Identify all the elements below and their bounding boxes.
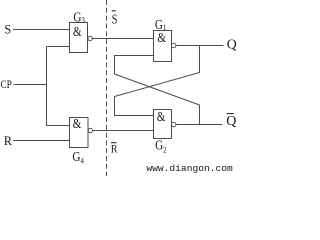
- svg-text:R: R: [111, 143, 118, 156]
- svg-text:&: &: [73, 116, 82, 131]
- wire Q-bar output from G2 bubble: [176, 124, 223, 126]
- wire CP input to trunk: [14, 84, 47, 86]
- wire S-bar from G3 to G1 pin 1: [92, 38, 153, 40]
- G2 output bubble: [172, 122, 176, 126]
- svg-text:www.diangon.com: www.diangon.com: [146, 163, 233, 174]
- svg-text:S: S: [112, 11, 118, 27]
- svg-text:Q: Q: [226, 114, 236, 129]
- NAND gate G2 body: [154, 109, 172, 139]
- NAND gate G1 body: [154, 30, 172, 62]
- svg-text:&: &: [73, 24, 82, 39]
- wire feedback Q-bar to G1 pin 2: [115, 56, 200, 125]
- wire feedback Q to G2 pin 1: [115, 46, 200, 116]
- G4 output bubble: [88, 128, 92, 132]
- G3 output bubble: [88, 36, 92, 40]
- svg-text:&: &: [157, 109, 166, 124]
- wire CP trunk vertical: [46, 47, 48, 126]
- output label Q-bar: [226, 114, 236, 129]
- dashed separator line: [106, 0, 108, 176]
- wire CP branch to G3 pin 2: [47, 46, 70, 48]
- wire CP branch to G4 pin 1: [47, 125, 70, 127]
- NAND gate G4 body: [70, 116, 89, 148]
- svg-text:R: R: [4, 134, 13, 148]
- svg-text:CP: CP: [1, 79, 12, 91]
- svg-text:S: S: [4, 23, 11, 37]
- wire R-bar from G4 to G2 pin 2: [93, 130, 154, 132]
- G1 output bubble: [172, 43, 176, 47]
- wire Q output from G1 bubble: [176, 45, 224, 47]
- svg-text:Q: Q: [227, 37, 237, 52]
- net label S-bar: [112, 11, 118, 27]
- wire R input to G4 pin 2: [13, 140, 70, 142]
- net label R-bar: [111, 143, 118, 156]
- NAND gate G3 body: [70, 23, 88, 53]
- wire S input to G3 pin 1: [13, 29, 70, 31]
